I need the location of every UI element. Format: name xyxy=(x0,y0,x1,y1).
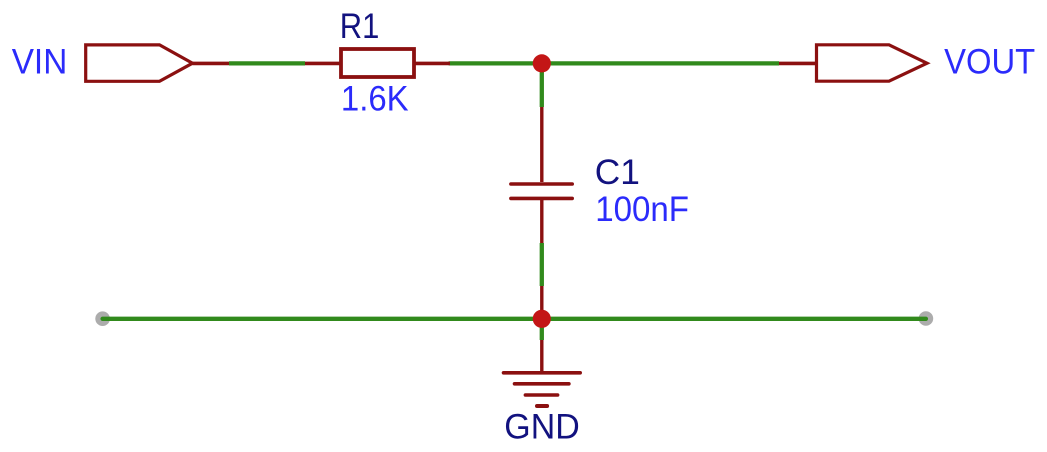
capacitor C1 top plate xyxy=(511,182,572,186)
ground stub xyxy=(540,340,543,373)
svg-text:VIN: VIN xyxy=(12,43,68,82)
wire R1 to VOUT (through node A) xyxy=(449,61,779,65)
ground bar 2 xyxy=(515,382,569,386)
svg-text:GND: GND xyxy=(504,407,579,446)
resistor R1 body xyxy=(341,49,414,77)
svg-text:1.6K: 1.6K xyxy=(341,80,409,119)
wire VIN to R1 xyxy=(229,61,305,65)
pin C1 top xyxy=(540,107,543,182)
pin R1 right xyxy=(414,62,450,66)
wire node B down to ground symbol xyxy=(540,321,544,340)
wire end dot left xyxy=(95,311,110,326)
svg-text:C1: C1 xyxy=(595,153,640,192)
pin VOUT port xyxy=(779,62,816,66)
node A junction dot xyxy=(533,54,551,72)
wire C1 to ground rail xyxy=(540,243,544,286)
svg-text:100nF: 100nF xyxy=(595,190,689,229)
pin segment to node B xyxy=(540,286,543,319)
node B junction dot xyxy=(533,310,551,328)
wire end dot right xyxy=(919,311,934,326)
ground bar 4 xyxy=(537,404,547,408)
port VOUT flag xyxy=(817,45,928,81)
ground bar 3 xyxy=(525,393,557,397)
port VIN flag xyxy=(86,45,193,81)
wire node A down to C1 xyxy=(540,66,544,107)
pin R1 left xyxy=(305,62,341,66)
wire ground rail horizontal xyxy=(103,317,926,321)
svg-text:R1: R1 xyxy=(340,7,380,46)
ground bar 1 xyxy=(504,371,581,375)
capacitor C1 bottom plate xyxy=(511,197,572,201)
pin C1 bottom xyxy=(540,200,543,243)
svg-text:VOUT: VOUT xyxy=(944,43,1035,82)
pin VIN port xyxy=(193,62,230,66)
